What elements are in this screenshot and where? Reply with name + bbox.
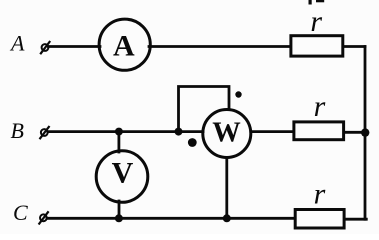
svg-text:A: A [9, 31, 25, 56]
svg-text:W: W [212, 118, 241, 149]
svg-text:C: C [13, 200, 28, 225]
svg-text:V: V [112, 157, 134, 190]
svg-text:A: A [113, 30, 135, 63]
svg-text:r: r [314, 90, 326, 123]
svg-text:B: B [11, 118, 24, 143]
svg-text:r: r [314, 177, 326, 210]
svg-text:r: r [310, 5, 322, 38]
